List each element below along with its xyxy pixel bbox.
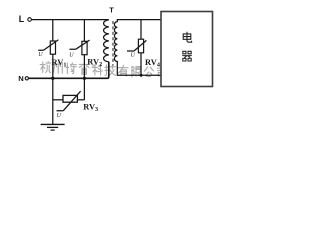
svg-text:U: U — [57, 113, 62, 119]
svg-text:T: T — [109, 7, 114, 14]
svg-text:U: U — [131, 52, 136, 58]
svg-text:N: N — [18, 74, 23, 83]
svg-text:L: L — [19, 14, 25, 24]
svg-text:U: U — [69, 53, 74, 59]
svg-text:U: U — [38, 52, 43, 58]
